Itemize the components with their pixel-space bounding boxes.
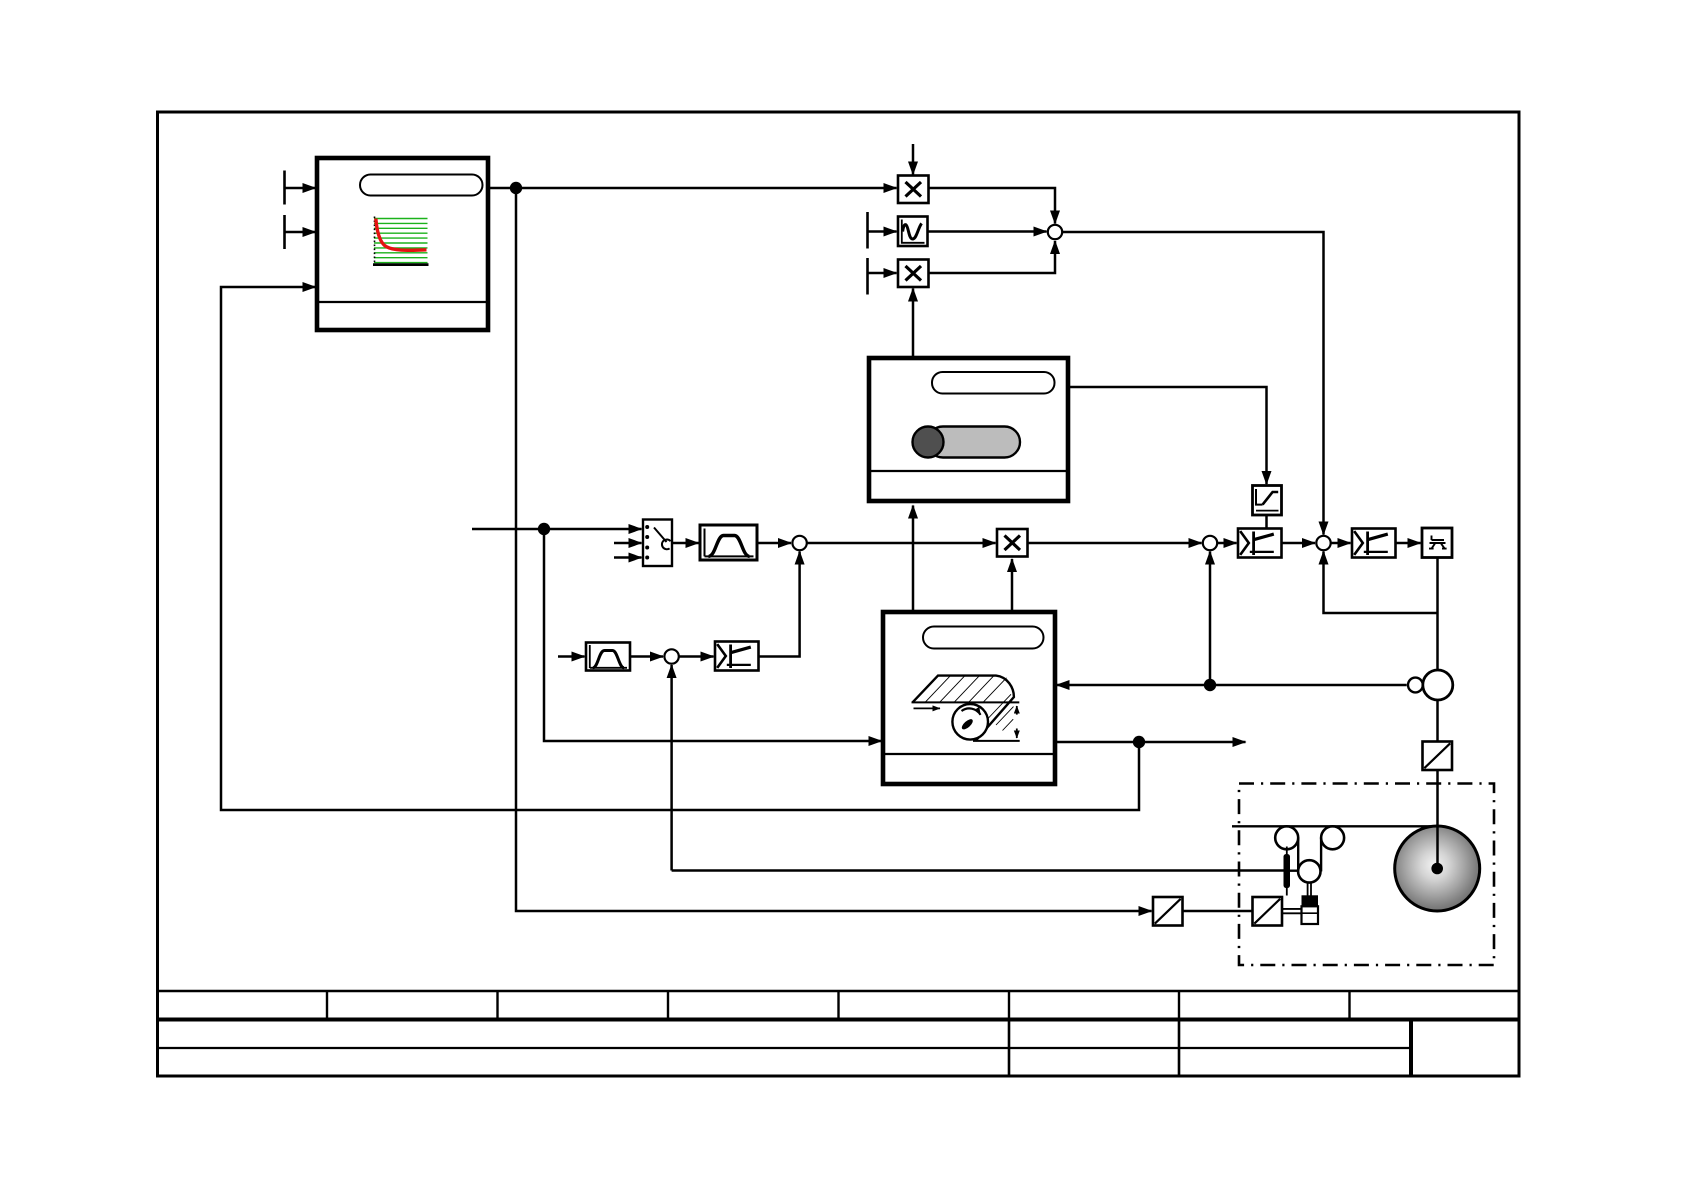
- link actuator bar to dancer roller: [1290, 870, 1299, 872]
- wire: speed setpoint line into selector switch: [472, 528, 642, 531]
- summing point S6: [1316, 536, 1330, 550]
- load cell mid line: [1302, 912, 1319, 914]
- wire: stub into ramp generator R2: [558, 655, 585, 658]
- wire: transducer U3 down to winding roll: [1436, 770, 1439, 871]
- summing point S1: [1048, 225, 1062, 239]
- D/A converter U1: [1153, 897, 1183, 926]
- web wrap segment right: [1320, 838, 1322, 872]
- block A characteristic graph: [373, 217, 429, 265]
- limiter L2: [1352, 529, 1396, 558]
- block B: winding diameter computer: [869, 358, 1068, 501]
- selector switch input stub 3: [614, 556, 642, 559]
- multiplier M3: [997, 529, 1028, 557]
- ramp-rate limiter R3: [1253, 486, 1282, 516]
- block A input terminator ticks: [283, 171, 286, 250]
- ramp-function generator R2: [586, 643, 630, 671]
- junction dot on motor speed line: [1204, 679, 1216, 691]
- wire: limiter L2 output to winder stand block: [1396, 542, 1421, 545]
- title block top line: [158, 990, 1520, 992]
- wire: summing point S1 output to summing point S3: [1062, 232, 1324, 535]
- wire: converter U1 to converter U2: [1183, 910, 1253, 913]
- wire: ramp R2 output to summing point S7: [630, 655, 663, 658]
- wire: limiter L3 output up to summing point S4: [758, 552, 800, 657]
- dancer roller: [1298, 860, 1320, 882]
- multiplier M2: [898, 260, 929, 288]
- guide roller 2: [1321, 826, 1344, 849]
- motor circle: [1423, 670, 1453, 700]
- wire: block B output to ramp-rate limiter R3: [1068, 387, 1267, 484]
- wire: summing point S6 output to limiter L2: [1331, 542, 1351, 545]
- selector switch input stub 2: [614, 542, 642, 545]
- winder machine boundary (dash-dot): [1239, 784, 1494, 966]
- wire: ramp R1 output to summing point S4: [757, 542, 791, 545]
- summing point S5: [1203, 536, 1217, 550]
- title block row1 cell dividers: [327, 991, 1350, 1020]
- block A: tension setpoint characteristic: [317, 158, 488, 330]
- wire: ramp-rate limiter R3 down to limiter L1: [1265, 515, 1268, 530]
- junction dot on block C output: [1133, 736, 1145, 748]
- wire: block B output up to multiplier M2: [912, 289, 915, 359]
- converter U2: [1253, 897, 1283, 926]
- web line: [1232, 825, 1437, 827]
- wire: winder stand block feedback down to summing point S6: [1436, 558, 1439, 614]
- wire: limiter L1 output to summing point S6: [1282, 542, 1316, 545]
- wire: selector switch output to ramp generator R1: [672, 542, 699, 545]
- wire: smoothing block output to summing point S1: [928, 230, 1047, 233]
- smoothing element (PT1): [898, 217, 928, 247]
- wire: dancer feedback horizontal run to dancer actuator: [672, 869, 1284, 872]
- dancer actuator bar: [1284, 854, 1291, 888]
- mechanical double line converter U2 to load cell: [1282, 909, 1302, 913]
- wire: block C top to multiplier M3 input: [1011, 559, 1014, 612]
- block A input stub 2: [285, 231, 316, 234]
- wire: block C output feedback to block A input: [221, 287, 1139, 810]
- tension transducer U3: [1423, 742, 1453, 771]
- guide roller 1: [1275, 826, 1298, 849]
- summing point S7: [664, 649, 678, 663]
- selector switch: [643, 520, 672, 567]
- load cell upper black cap: [1302, 895, 1319, 906]
- summing point S4: [792, 536, 806, 550]
- roll shaft line inside: [1436, 827, 1439, 869]
- wire: block C top up into block B bottom: [912, 506, 915, 613]
- input stub into M2: [868, 272, 897, 275]
- wire: block A output to multiplier M1: [488, 187, 897, 190]
- block C web-over-roller icon: [912, 676, 1020, 741]
- wire: shaft line winder stand to motor: [1436, 613, 1439, 671]
- wire: feedback corner to summing point S6: [1324, 552, 1438, 614]
- tachometer circle: [1408, 678, 1423, 693]
- wire: speed branch up to summing point S5: [1209, 552, 1212, 686]
- drawing frame border: [158, 112, 1520, 1076]
- wire: multiplier M3 output to summing point S5: [1028, 542, 1202, 545]
- web wrap segment left: [1297, 838, 1299, 872]
- wire: M2 output to summing point S1: [929, 241, 1056, 273]
- block B roll icon: [913, 427, 1021, 458]
- wire: stub into multiplier M1 from top: [912, 144, 915, 175]
- title block lower rows dividers: [1009, 1020, 1411, 1077]
- winding roll: [1395, 826, 1480, 911]
- dancer stem double line: [1308, 882, 1311, 896]
- wire: branch from A output down and right to D/A converter U1: [516, 188, 1152, 911]
- block A input stub 1: [285, 187, 316, 190]
- wire: summing point S5 output to limiter L1: [1217, 542, 1237, 545]
- limiter L3: [715, 642, 759, 671]
- junction dot on speed line: [538, 523, 550, 535]
- wire: summing point S4 output to multiplier M3: [807, 542, 996, 545]
- wire: motor shaft to tension transducer U3: [1436, 700, 1439, 743]
- limiter L1: [1238, 529, 1282, 558]
- ramp-function generator R1: [700, 525, 757, 560]
- wire: summing point S7 output to limiter L3: [679, 655, 714, 658]
- input terminator tick for smoothing element: [866, 212, 869, 249]
- wire: block C output to dangling arrow: [1055, 741, 1246, 744]
- block C: web nip / material section: [883, 612, 1055, 784]
- dancer actuator stem line: [1286, 847, 1288, 896]
- roll hub dot: [1431, 863, 1443, 875]
- wire: branch from speed line down into block C: [544, 529, 882, 741]
- load cell body: [1302, 906, 1319, 924]
- input stub into smoothing element: [868, 230, 897, 233]
- wire: M1 output to summing point S1: [929, 188, 1056, 224]
- title block heavy separator line: [158, 1018, 1520, 1022]
- winder stand block: [1422, 528, 1452, 558]
- multiplier M1: [898, 176, 929, 204]
- wire: dancer position feedback up into summing point S7: [670, 665, 673, 871]
- title block lower rows mid line: [158, 1047, 1412, 1049]
- junction dot on A output: [510, 182, 522, 194]
- wire: motor speed line to block C: [1057, 684, 1407, 687]
- input terminator tick for M2: [866, 258, 869, 295]
